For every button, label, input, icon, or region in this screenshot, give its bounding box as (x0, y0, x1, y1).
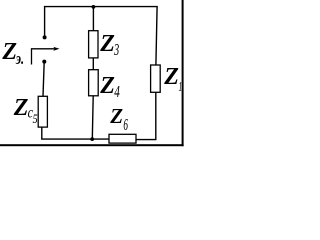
svg-text:э.: э. (15, 49, 24, 68)
svg-text:Z: Z (13, 95, 29, 121)
svg-text:Z: Z (109, 104, 123, 128)
svg-text:3: 3 (113, 40, 119, 59)
svg-text:4: 4 (114, 82, 120, 101)
svg-text:Z: Z (163, 64, 179, 90)
svg-text:1: 1 (179, 80, 183, 95)
svg-text:5: 5 (33, 111, 38, 126)
svg-text:6: 6 (123, 115, 128, 134)
svg-text:Z: Z (99, 31, 115, 57)
svg-text:Z: Z (99, 73, 115, 99)
